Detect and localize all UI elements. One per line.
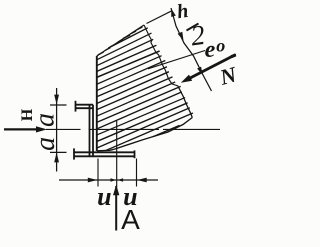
centroid axis line (parallel to force N): [148, 51, 205, 69]
section A arrow: [113, 185, 119, 231]
plate bottom edge: [97, 118, 192, 151]
H leader arrow: [4, 126, 47, 132]
svg-text:a: a: [30, 113, 61, 127]
plate hatching: [96, 28, 193, 151]
svg-text:e: e: [205, 37, 216, 63]
a-a vertical dimension line with arrows: [54, 88, 59, 172]
weld centroid vertical line: [116, 121, 118, 187]
u-u extension line left: [97, 159, 99, 187]
u-u dimension line with arrows: [59, 178, 158, 183]
weld top flange (double line): [76, 101, 94, 112]
horizontal center line: [46, 128, 220, 130]
plate right edge upper (jagged): [144, 25, 172, 84]
svg-text:o: o: [216, 36, 225, 56]
plate top edge: [97, 25, 144, 56]
fraction bar of h/2: [187, 24, 199, 31]
u-u extension line right: [136, 159, 138, 187]
h/2 and e0 dimension line with arrows: [171, 8, 212, 91]
weld bottom flange (double line): [74, 148, 135, 159]
svg-text:u: u: [97, 182, 111, 211]
plate right edge lower: [178, 86, 193, 118]
extension tick at bottom flange: [50, 151, 67, 153]
svg-text:A: A: [121, 204, 140, 235]
plate edge notch: [172, 84, 178, 86]
weld web (double line): [90, 105, 94, 157]
force N vector arrow: [181, 54, 236, 83]
extension of plate top edge: [147, 11, 172, 24]
top edge hatch whiskers: [98, 27, 143, 55]
svg-text:a: a: [30, 137, 61, 151]
plate left edge: [96, 56, 98, 151]
extension tick at top flange: [50, 104, 67, 106]
